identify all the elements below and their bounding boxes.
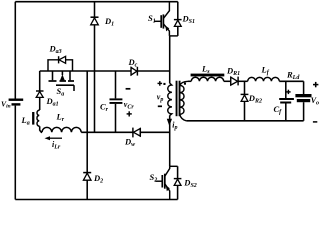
- transformer primary winding: [168, 83, 172, 115]
- wire Da1/La branch: [39, 71, 41, 110]
- diode DR2: [241, 81, 249, 121]
- wire Lf to output corner: [279, 80, 303, 82]
- inductor Lr: [42, 127, 81, 132]
- diode Dc: [131, 67, 137, 76]
- svg-text:DS1: DS1: [182, 14, 195, 26]
- transistor S2 igbt: [155, 166, 177, 199]
- wire La to corner: [39, 126, 41, 130]
- transistor S1 igbt: [154, 2, 177, 36]
- wire rail below primary: [169, 115, 171, 166]
- svg-text:DS2: DS2: [183, 178, 196, 190]
- capacitor Cr: [110, 98, 123, 104]
- wire S1 to transformer rail: [169, 36, 171, 83]
- diode Dw: [133, 128, 140, 138]
- svg-text:DR2: DR2: [248, 93, 262, 105]
- inductor Lf: [248, 77, 280, 81]
- wire W1 clamp top wire: [40, 70, 170, 72]
- wire rail A (D2 branch x=87.2 W1 to bottom): [86, 71, 88, 200]
- wire top rail: [15, 1, 178, 3]
- wire Cr branch lower: [115, 104, 117, 132]
- svg-text:Da1: Da1: [46, 96, 59, 108]
- wire secondary bottom rail: [186, 120, 303, 122]
- svg-text:Dw: Dw: [124, 137, 136, 149]
- inductor La: [37, 110, 40, 126]
- battery Vin: [9, 99, 24, 106]
- label plus Cf: [286, 90, 290, 94]
- dot secondary polarity: [184, 83, 186, 85]
- svg-text:S1: S1: [148, 13, 156, 25]
- current arrow ip: [167, 119, 172, 126]
- svg-text:D1: D1: [104, 16, 114, 28]
- inductor Ls saturable: [191, 77, 223, 81]
- svg-text:D2: D2: [93, 173, 103, 185]
- wire W2 bottom resonant wire right part: [81, 131, 170, 133]
- diode DR1: [231, 77, 238, 86]
- core bar Ls: [191, 74, 225, 77]
- wire Cr branch upper: [115, 71, 117, 98]
- diode D2: [83, 173, 91, 181]
- label minus primary: [158, 105, 162, 107]
- wire W2 left stub: [40, 130, 42, 132]
- svg-text:Vo: Vo: [311, 96, 319, 107]
- wire bottom rail: [15, 199, 177, 201]
- svg-text:Sa: Sa: [57, 86, 65, 98]
- svg-text:S2: S2: [150, 172, 158, 184]
- svg-text:iLr: iLr: [52, 140, 61, 151]
- svg-text:Lr: Lr: [56, 112, 65, 124]
- battery Vo output: [295, 81, 311, 121]
- dot primary polarity: [163, 83, 165, 85]
- svg-text:Dc: Dc: [128, 57, 138, 69]
- diode D1: [91, 17, 99, 25]
- svg-text:Lf: Lf: [261, 65, 270, 77]
- transformer secondary winding: [180, 81, 188, 121]
- label minus output: [313, 121, 317, 123]
- capacitor Cf: [279, 81, 294, 121]
- current arrow iLr: [45, 136, 63, 140]
- svg-text:ip: ip: [172, 120, 177, 131]
- label plus output: [313, 82, 318, 87]
- svg-text:vCr: vCr: [124, 100, 135, 111]
- svg-text:DR1: DR1: [226, 66, 240, 78]
- svg-text:Cf: Cf: [274, 104, 283, 116]
- label plus primary: [158, 81, 163, 86]
- svg-text:La: La: [21, 115, 30, 127]
- diode Da1: [36, 91, 44, 97]
- svg-text:Cr: Cr: [100, 102, 109, 114]
- svg-text:Vin: Vin: [1, 99, 11, 109]
- core bar La: [32, 112, 34, 125]
- wire DR1 to Lf: [238, 80, 248, 82]
- wire rail B (D1 branch x=94.5 top to W2): [94, 2, 96, 133]
- diode DS1 antiparallel: [174, 2, 182, 36]
- svg-text:RLd: RLd: [286, 69, 300, 81]
- label plus vCr: [127, 111, 132, 116]
- wire left rail upper: [14, 2, 16, 99]
- wire left rail lower: [14, 106, 16, 200]
- transformer core bars: [176, 81, 178, 117]
- wire Ls to DR1: [224, 80, 231, 82]
- svg-text:Ls: Ls: [201, 63, 210, 75]
- diode Da3 clamp loop: [48, 56, 73, 71]
- svg-text:vp: vp: [157, 93, 164, 104]
- transistor Sa mosfet: [49, 71, 75, 91]
- label minus vCr: [126, 88, 131, 90]
- wire secondary top: [188, 80, 191, 82]
- diode DS2 antiparallel: [174, 166, 182, 199]
- svg-text:Da3: Da3: [49, 44, 62, 56]
